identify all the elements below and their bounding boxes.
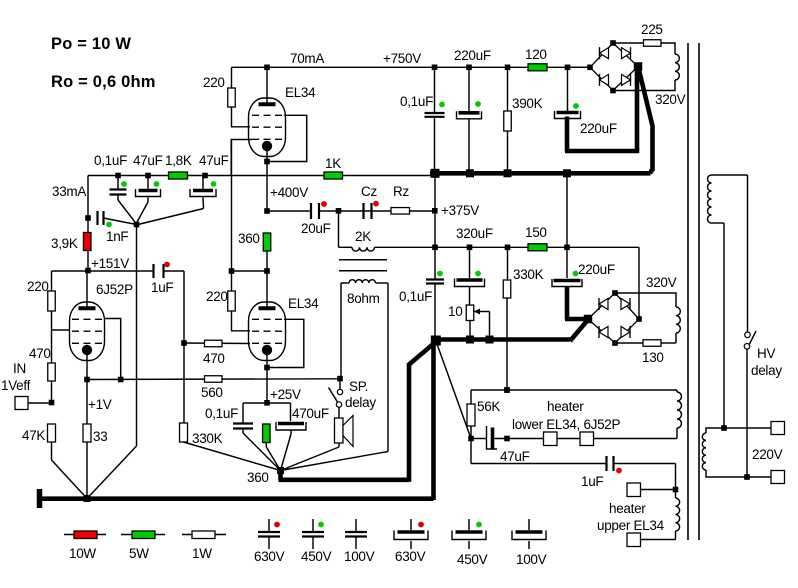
svg-text:Ro = 0,6 0hm: Ro = 0,6 0hm <box>51 73 156 91</box>
svg-text:delay: delay <box>751 363 782 378</box>
svg-text:0,1uF: 0,1uF <box>94 153 127 168</box>
svg-text:450V: 450V <box>457 552 488 567</box>
svg-text:320V: 320V <box>655 92 686 107</box>
svg-text:100V: 100V <box>344 549 375 564</box>
svg-text:0,1uF: 0,1uF <box>205 406 238 421</box>
svg-text:0,1uF: 0,1uF <box>399 289 432 304</box>
svg-text:360: 360 <box>238 231 260 246</box>
svg-text:Cz: Cz <box>361 184 377 199</box>
svg-text:EL34: EL34 <box>288 296 319 311</box>
svg-text:450V: 450V <box>301 549 332 564</box>
svg-text:220uF: 220uF <box>578 262 615 277</box>
svg-text:SP.: SP. <box>349 379 368 394</box>
svg-text:220: 220 <box>206 289 228 304</box>
svg-text:130: 130 <box>642 350 664 365</box>
svg-text:220V: 220V <box>752 447 783 462</box>
svg-text:EL34: EL34 <box>285 85 316 100</box>
svg-text:10: 10 <box>448 304 462 319</box>
svg-text:320V: 320V <box>646 275 677 290</box>
svg-text:1uF: 1uF <box>581 474 603 489</box>
svg-text:20uF: 20uF <box>301 221 331 236</box>
svg-text:3,9K: 3,9K <box>51 236 78 251</box>
svg-text:1Veff: 1Veff <box>1 378 31 393</box>
svg-text:+750V: +750V <box>383 51 421 66</box>
svg-text:630V: 630V <box>254 549 285 564</box>
svg-text:70mA: 70mA <box>290 51 324 66</box>
svg-text:0,1uF: 0,1uF <box>400 94 433 109</box>
svg-text:upper EL34: upper EL34 <box>597 518 665 533</box>
svg-text:320uF: 320uF <box>456 226 493 241</box>
svg-text:220: 220 <box>203 75 225 90</box>
svg-text:1,8K: 1,8K <box>165 153 192 168</box>
svg-text:+1V: +1V <box>88 397 112 412</box>
svg-text:33: 33 <box>93 429 107 444</box>
svg-text:1W: 1W <box>192 546 212 561</box>
svg-text:delay: delay <box>345 395 376 410</box>
svg-text:HV: HV <box>757 346 775 361</box>
svg-text:Po = 10 W: Po = 10 W <box>51 35 131 53</box>
svg-text:8ohm: 8ohm <box>347 291 380 306</box>
svg-text:47K: 47K <box>22 428 45 443</box>
svg-text:1nF: 1nF <box>106 229 128 244</box>
svg-text:150: 150 <box>525 225 547 240</box>
svg-text:IN: IN <box>13 361 26 376</box>
svg-text:470: 470 <box>29 346 51 361</box>
svg-text:heater: heater <box>547 399 584 414</box>
svg-text:56K: 56K <box>477 399 500 414</box>
svg-text:560: 560 <box>201 385 223 400</box>
svg-text:100V: 100V <box>516 552 547 567</box>
svg-text:330K: 330K <box>192 431 223 446</box>
svg-text:+400V: +400V <box>270 185 308 200</box>
svg-text:heater: heater <box>609 501 646 516</box>
svg-text:47uF: 47uF <box>133 153 163 168</box>
svg-text:470uF: 470uF <box>292 406 329 421</box>
svg-text:+25V: +25V <box>270 387 301 402</box>
svg-text:220uF: 220uF <box>454 48 491 63</box>
svg-text:+375V: +375V <box>441 203 479 218</box>
svg-text:220: 220 <box>27 279 49 294</box>
svg-text:1uF: 1uF <box>151 280 173 295</box>
svg-text:360: 360 <box>247 470 269 485</box>
svg-text:2K: 2K <box>355 229 371 244</box>
svg-text:220uF: 220uF <box>580 121 617 136</box>
svg-text:33mA: 33mA <box>52 184 86 199</box>
svg-text:330K: 330K <box>513 267 544 282</box>
svg-text:47uF: 47uF <box>500 449 530 464</box>
svg-text:120: 120 <box>525 47 547 62</box>
svg-text:10W: 10W <box>69 546 96 561</box>
svg-text:6J52P: 6J52P <box>96 282 133 297</box>
svg-text:390K: 390K <box>512 96 543 111</box>
svg-text:lower EL34, 6J52P: lower EL34, 6J52P <box>512 417 621 432</box>
svg-text:630V: 630V <box>395 549 426 564</box>
svg-text:Rz: Rz <box>393 184 409 199</box>
svg-text:1K: 1K <box>325 156 341 171</box>
svg-text:+151V: +151V <box>91 256 129 271</box>
svg-text:225: 225 <box>641 22 663 37</box>
svg-text:47uF: 47uF <box>199 153 229 168</box>
svg-text:470: 470 <box>203 351 225 366</box>
svg-text:5W: 5W <box>129 546 149 561</box>
